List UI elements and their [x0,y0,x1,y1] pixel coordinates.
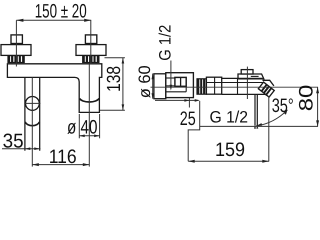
arrowhead 138 top [122,58,125,64]
arrowhead 35 right [34,147,39,150]
body cap inner vertical [214,77,216,94]
spout underside [265,94,269,96]
escutcheon left [1,45,31,56]
reference line bottom (80 base) [200,125,318,127]
body axis centerline [151,86,319,88]
left tube edge left [24,77,26,150]
union cover block [166,73,194,98]
threaded nipple (striped) [197,79,207,94]
arc arrowhead [256,123,262,126]
spout rim arc [80,98,99,102]
arrowhead 80 bottom [316,120,319,126]
dimension line ø40 [79,135,99,137]
arrowhead ø40 right [94,135,99,138]
extension line 25 left [188,98,190,108]
arrowhead 159 right [262,160,269,163]
circle detail [26,97,40,111]
handle lever bar [238,74,264,79]
left tube edge right [39,77,41,150]
arrowhead 116 right [83,163,90,166]
dimension line 25 [155,99,199,101]
dimension line 116 [32,164,89,166]
cartridge centerline [246,67,248,99]
leader arrowhead G 1/2 top [170,85,173,91]
svg-text:35: 35 [3,131,24,153]
extension line 159 right [268,96,270,161]
arrowhead ø60 bottom [152,93,154,98]
union square side line [185,86,187,92]
outlet arrowhead right [256,125,258,128]
arrowhead ø60 top [152,74,154,79]
extension line 138 top [105,57,125,59]
extension jog 159 left [188,101,200,161]
extension line ø40 left [78,114,80,138]
centerline spout tube [88,64,90,167]
escutcheon right [76,45,106,56]
svg-text:25: 25 [180,108,196,130]
handle knob [241,70,253,74]
aerator (striped, rotated) [258,82,274,97]
svg-text:G 1/2: G 1/2 [210,108,249,126]
hex nut left (striped) [8,55,24,62]
arrowhead left 150 [16,19,23,22]
svg-text:116: 116 [49,146,77,167]
union inner square divider [180,77,182,86]
arrowhead 159 left [188,160,195,163]
body main top edge [222,77,263,79]
svg-text:ø 60: ø 60 [136,65,154,98]
angle arc 35° [256,110,288,126]
arrowhead 35 left [25,147,30,150]
extension line 138 bottom [100,109,125,111]
body right shoulder [263,80,274,86]
shower outlet line left [254,94,256,125]
union inner square [175,77,186,86]
arrowhead 80 top [316,87,319,93]
arrowhead right 150 [84,19,91,22]
body inner horizontal [206,82,263,84]
wall flange [154,74,166,99]
nut right (square) [85,35,96,44]
centerline left connection [15,20,17,66]
dimension line 138 [122,58,124,110]
handle step [251,75,259,77]
body inner vertical [237,78,239,95]
svg-text:138: 138 [104,66,125,92]
faucet body with spout tube (front) [7,64,101,113]
pipe bottom line [166,91,186,93]
pipe top line [166,77,175,79]
leader G 1/2 top [170,61,172,89]
nut left (square) [11,35,22,44]
svg-text:35°: 35° [272,95,294,117]
arrowhead 138 bottom [122,104,125,110]
arrowhead 25 left [184,99,189,102]
crosshair horizontal [24,102,40,104]
arc arrowhead upper [284,110,288,115]
svg-text:80: 80 [295,85,317,112]
extension line ø40 right [99,114,101,138]
svg-text:G 1/2: G 1/2 [156,25,174,61]
svg-text:159: 159 [215,139,245,161]
body main bottom edge [222,93,266,95]
dimension line 80 [317,87,319,126]
arrowhead 116 left [32,163,39,166]
dimension line 35 [2,148,41,150]
body cap [206,77,221,94]
svg-text:150 ± 20: 150 ± 20 [35,1,87,23]
arrowhead 25 right [195,99,200,102]
arrowhead ø40 left [79,135,84,138]
shower outlet line right [256,94,258,125]
outlet arrowhead left [254,125,256,128]
dimension line 159 [188,160,269,162]
left tube rim arc [25,122,39,126]
dimension line ø60 [152,74,154,99]
hex nut right (striped) [83,55,99,62]
centerline left tube [31,77,33,166]
centerline right connection [90,20,92,64]
dimension line 150±20 [16,19,91,21]
pipe mid line [166,85,175,87]
